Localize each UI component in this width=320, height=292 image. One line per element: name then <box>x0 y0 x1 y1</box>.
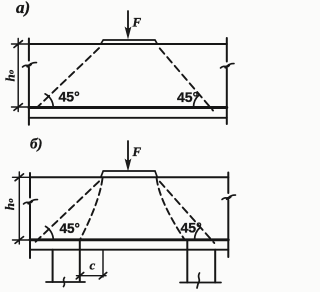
dimension extension lines h0 (fig b) <box>13 177 31 240</box>
dimension extension c right <box>102 250 104 277</box>
break mark right edge (fig b) <box>222 195 236 199</box>
dimension tick c right <box>99 273 106 279</box>
force arrow F (fig a) <box>127 11 129 30</box>
svg-text:c: c <box>90 258 96 273</box>
break mark right edge (fig a) <box>221 64 235 68</box>
slab right edge (fig a) <box>226 38 228 124</box>
break mark left edge (fig b) <box>24 200 38 204</box>
dashed spread line inner left (fig b) <box>80 178 103 240</box>
slab top line (fig a) <box>29 43 227 45</box>
dimension tick bottom (fig a) <box>14 104 22 111</box>
dimension tick top (fig a) <box>14 41 22 48</box>
left pile break mark <box>64 278 65 287</box>
svg-text:ho: ho <box>3 70 18 82</box>
slab right edge (fig b) <box>227 173 229 258</box>
left pile outer edge <box>52 250 54 282</box>
svg-text:a): a) <box>16 0 30 17</box>
force arrow F (fig b) <box>127 141 129 162</box>
angle arc left (fig b) <box>46 226 54 240</box>
svg-text:45°: 45° <box>59 89 80 105</box>
dashed spread line left (fig a) <box>38 45 102 107</box>
right pile cut line <box>180 282 221 284</box>
slab left edge (fig b) <box>29 173 31 258</box>
svg-text:ho: ho <box>2 198 17 210</box>
svg-text:45°: 45° <box>60 221 80 236</box>
bearing plate (fig a) <box>101 40 158 44</box>
left pile cut line <box>46 281 85 283</box>
right pile outer edge <box>214 250 216 283</box>
break mark left edge (fig a) <box>23 63 37 67</box>
svg-text:F: F <box>132 144 142 159</box>
angle arc right (fig a) <box>193 95 199 108</box>
dashed spread line outer left (fig b) <box>35 178 102 242</box>
svg-text:45°: 45° <box>177 89 198 105</box>
left pile inner edge / extension <box>79 241 81 282</box>
right pile break mark <box>197 273 200 288</box>
dashed spread line outer right (fig b) <box>157 178 215 243</box>
dashed spread line inner right (fig b) <box>157 178 185 240</box>
dashed spread line right (fig a) <box>157 45 213 111</box>
svg-text:б): б) <box>30 137 42 153</box>
dimension line h0 (fig b) <box>18 172 20 244</box>
dimension tick top (fig b) <box>15 174 23 181</box>
dimension extension lines h0 (fig a) <box>12 44 29 107</box>
dimension line h0 (fig a) <box>17 39 19 112</box>
angle arc right (fig b) <box>194 227 200 240</box>
slab top line (fig b) <box>30 176 228 178</box>
slab left edge (fig a) <box>28 39 30 125</box>
svg-text:45°: 45° <box>181 220 202 236</box>
slab bottom bold line (fig a) <box>29 106 227 109</box>
slab bottom bold line (fig b) <box>30 238 228 241</box>
angle arc left (fig a) <box>45 94 53 107</box>
bearing plate (fig b) <box>101 171 158 177</box>
lower wall line (fig b) <box>30 249 228 251</box>
right pile inner edge / extension <box>186 241 188 283</box>
dimension tick bottom (fig b) <box>15 237 23 244</box>
dimension line c <box>77 275 107 277</box>
dimension tick c left <box>76 273 83 279</box>
lower wall line (fig a) <box>29 117 227 119</box>
svg-text:F: F <box>132 15 142 30</box>
